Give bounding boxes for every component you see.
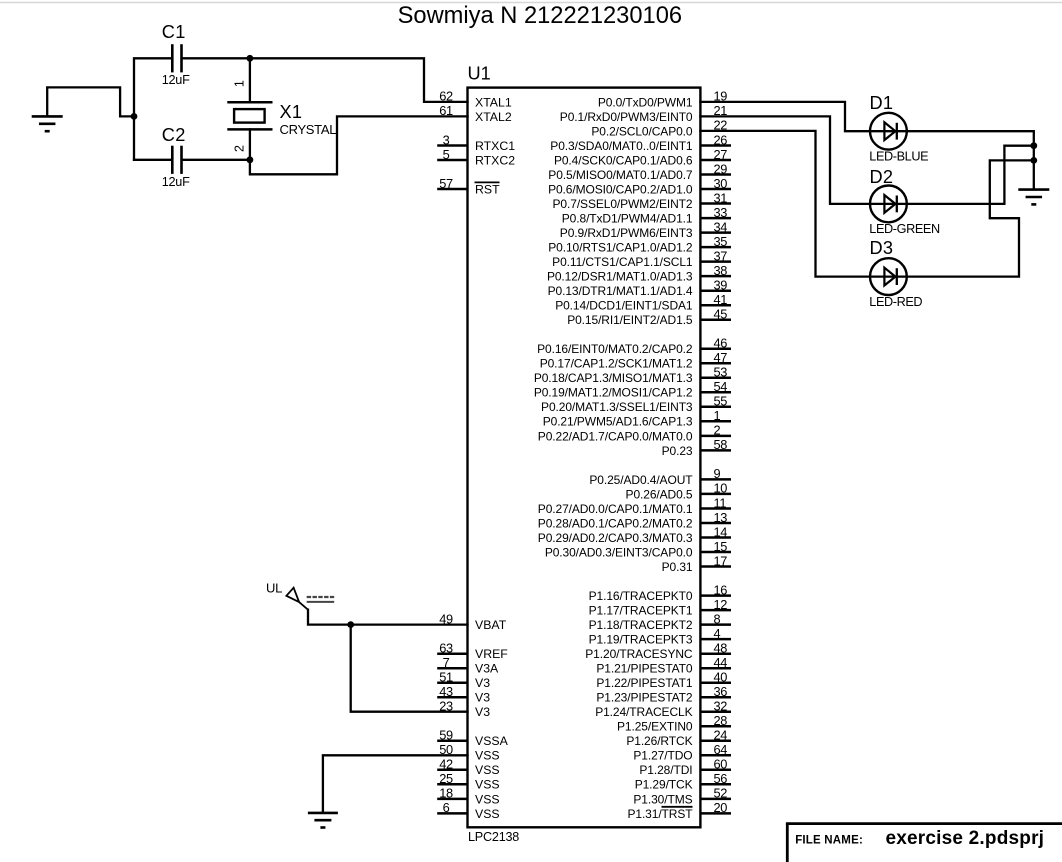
svg-text:P1.18/TRACEPKT2: P1.18/TRACEPKT2: [589, 618, 693, 632]
svg-text:P0.17/CAP1.2/SCK1/MAT1.2: P0.17/CAP1.2/SCK1/MAT1.2: [540, 357, 693, 371]
svg-text:P1.23/PIPESTAT2: P1.23/PIPESTAT2: [596, 691, 693, 705]
svg-text:P0.22/AD1.7/CAP0.0/MAT0.0: P0.22/AD1.7/CAP0.0/MAT0.0: [538, 429, 693, 443]
svg-text:D2: D2: [870, 167, 894, 187]
svg-text:57: 57: [439, 176, 453, 191]
svg-text:42: 42: [439, 757, 453, 772]
svg-text:UL: UL: [266, 580, 282, 595]
svg-text:P0.3/SDA0/MAT0..0/EINT1: P0.3/SDA0/MAT0..0/EINT1: [550, 139, 693, 153]
svg-text:35: 35: [714, 234, 728, 249]
svg-text:P0.21/PWM5/AD1.6/CAP1.3: P0.21/PWM5/AD1.6/CAP1.3: [543, 415, 693, 429]
svg-text:CRYSTAL: CRYSTAL: [280, 122, 337, 137]
svg-text:D3: D3: [870, 238, 894, 258]
svg-text:VBAT: VBAT: [475, 618, 507, 632]
svg-text:P0.28/AD0.1/CAP0.2/MAT0.2: P0.28/AD0.1/CAP0.2/MAT0.2: [538, 516, 693, 530]
svg-text:XTAL1: XTAL1: [475, 95, 512, 109]
svg-text:59: 59: [439, 728, 453, 743]
svg-text:56: 56: [714, 771, 728, 786]
svg-text:P1.16/TRACEPKT0: P1.16/TRACEPKT0: [589, 589, 693, 603]
svg-text:3: 3: [443, 132, 450, 147]
svg-text:VREF: VREF: [475, 647, 508, 661]
svg-text:39: 39: [714, 278, 728, 293]
svg-text:P1.31/TRST: P1.31/TRST: [627, 807, 693, 821]
svg-text:33: 33: [714, 205, 728, 220]
svg-text:VSSA: VSSA: [475, 734, 509, 748]
svg-text:P0.2/SCL0/CAP0.0: P0.2/SCL0/CAP0.0: [591, 124, 693, 138]
svg-text:6: 6: [443, 800, 450, 815]
svg-text:5: 5: [443, 147, 450, 162]
svg-text:P1.19/TRACEPKT3: P1.19/TRACEPKT3: [589, 633, 693, 647]
svg-text:24: 24: [714, 728, 728, 743]
svg-text:44: 44: [714, 655, 728, 670]
svg-text:P1.25/EXTIN0: P1.25/EXTIN0: [617, 720, 693, 734]
svg-text:2: 2: [714, 423, 721, 438]
svg-text:P0.15/RI1/EINT2/AD1.5: P0.15/RI1/EINT2/AD1.5: [567, 313, 693, 327]
svg-text:P0.18/CAP1.3/MISO1/MAT1.3: P0.18/CAP1.3/MISO1/MAT1.3: [534, 371, 693, 385]
svg-text:V3: V3: [475, 691, 490, 705]
svg-text:P0.9/RxD1/PWM6/EINT3: P0.9/RxD1/PWM6/EINT3: [560, 226, 693, 240]
svg-text:P1.24/TRACECLK: P1.24/TRACECLK: [595, 705, 692, 719]
svg-text:C1: C1: [162, 22, 186, 42]
svg-text:FILE NAME:: FILE NAME:: [795, 834, 863, 846]
svg-text:P1.26/RTCK: P1.26/RTCK: [626, 734, 692, 748]
svg-text:P0.13/DTR1/MAT1.1/AD1.4: P0.13/DTR1/MAT1.1/AD1.4: [548, 284, 693, 298]
svg-text:P0.30/AD0.3/EINT3/CAP0.0: P0.30/AD0.3/EINT3/CAP0.0: [545, 545, 693, 559]
svg-text:VSS: VSS: [475, 749, 500, 763]
svg-text:Sowmiya N 212221230106: Sowmiya N 212221230106: [398, 3, 682, 29]
svg-text:18: 18: [439, 786, 453, 801]
svg-text:12uF: 12uF: [162, 73, 190, 87]
svg-text:P0.27/AD0.0/CAP0.1/MAT0.1: P0.27/AD0.0/CAP0.1/MAT0.1: [538, 502, 693, 516]
svg-text:43: 43: [439, 684, 453, 699]
svg-text:P1.17/TRACEPKT1: P1.17/TRACEPKT1: [589, 604, 693, 618]
svg-text:P1.30/TMS: P1.30/TMS: [633, 792, 692, 806]
svg-text:P0.16/EINT0/MAT0.2/CAP0.2: P0.16/EINT0/MAT0.2/CAP0.2: [537, 342, 693, 356]
svg-text:63: 63: [439, 641, 453, 656]
svg-text:34: 34: [714, 219, 728, 234]
svg-text:52: 52: [714, 786, 728, 801]
svg-text:P0.7/SSEL0/PWM2/EINT2: P0.7/SSEL0/PWM2/EINT2: [553, 197, 693, 211]
svg-text:60: 60: [714, 757, 728, 772]
svg-text:exercise 2.pdsprj: exercise 2.pdsprj: [886, 828, 1045, 849]
svg-text:P0.4/SCK0/CAP0.1/AD0.6: P0.4/SCK0/CAP0.1/AD0.6: [554, 153, 693, 167]
svg-text:LED-GREEN: LED-GREEN: [869, 222, 940, 236]
svg-text:P0.23: P0.23: [662, 444, 693, 458]
svg-text:31: 31: [714, 190, 728, 205]
svg-text:P0.1/RxD0/PWM3/EINT0: P0.1/RxD0/PWM3/EINT0: [560, 110, 693, 124]
svg-text:9: 9: [714, 466, 721, 481]
svg-text:P0.5/MISO0/MAT0.1/AD0.7: P0.5/MISO0/MAT0.1/AD0.7: [548, 168, 693, 182]
svg-text:53: 53: [714, 365, 728, 380]
svg-text:32: 32: [714, 699, 728, 714]
svg-text:XTAL2: XTAL2: [475, 110, 512, 124]
svg-text:RTXC1: RTXC1: [475, 139, 515, 153]
svg-text:41: 41: [714, 292, 728, 307]
svg-text:29: 29: [714, 161, 728, 176]
svg-text:38: 38: [714, 263, 728, 278]
svg-text:C2: C2: [162, 125, 186, 145]
svg-text:2: 2: [232, 145, 246, 152]
svg-text:P0.20/MAT1.3/SSEL1/EINT3: P0.20/MAT1.3/SSEL1/EINT3: [541, 400, 693, 414]
svg-text:V3: V3: [475, 676, 490, 690]
svg-text:48: 48: [714, 641, 728, 656]
svg-text:1: 1: [232, 80, 246, 87]
svg-text:4: 4: [714, 626, 721, 641]
svg-text:P0.19/MAT1.2/MOSI1/CAP1.2: P0.19/MAT1.2/MOSI1/CAP1.2: [534, 386, 693, 400]
svg-text:VSS: VSS: [475, 763, 500, 777]
svg-text:25: 25: [439, 771, 453, 786]
svg-text:P0.10/RTS1/CAP1.0/AD1.2: P0.10/RTS1/CAP1.0/AD1.2: [548, 241, 693, 255]
svg-text:54: 54: [714, 379, 728, 394]
svg-text:11: 11: [714, 495, 727, 510]
svg-text:P0.6/MOSI0/CAP0.2/AD1.0: P0.6/MOSI0/CAP0.2/AD1.0: [548, 182, 693, 196]
svg-text:VSS: VSS: [475, 807, 500, 821]
svg-text:13: 13: [714, 510, 728, 525]
svg-text:RTXC2: RTXC2: [475, 153, 515, 167]
svg-text:58: 58: [714, 437, 728, 452]
svg-text:VSS: VSS: [475, 792, 500, 806]
svg-text:17: 17: [714, 553, 728, 568]
svg-text:55: 55: [714, 394, 728, 409]
svg-text:P0.14/DCD1/EINT1/SDA1: P0.14/DCD1/EINT1/SDA1: [555, 299, 693, 313]
svg-text:46: 46: [714, 336, 728, 351]
svg-text:30: 30: [714, 176, 728, 191]
svg-text:37: 37: [714, 248, 728, 263]
svg-text:RST: RST: [475, 182, 500, 196]
svg-text:X1: X1: [280, 102, 303, 122]
svg-text:P1.21/PIPESTAT0: P1.21/PIPESTAT0: [596, 662, 693, 676]
svg-text:28: 28: [714, 713, 728, 728]
svg-text:P1.29/TCK: P1.29/TCK: [635, 778, 693, 792]
svg-text:36: 36: [714, 684, 728, 699]
svg-text:D1: D1: [870, 93, 894, 113]
svg-text:VSS: VSS: [475, 778, 500, 792]
svg-text:P0.26/AD0.5: P0.26/AD0.5: [626, 487, 693, 501]
svg-text:V3: V3: [475, 705, 490, 719]
svg-text:8: 8: [714, 611, 721, 626]
svg-text:20: 20: [714, 800, 728, 815]
svg-text:P1.22/PIPESTAT1: P1.22/PIPESTAT1: [596, 676, 693, 690]
svg-text:P1.20/TRACESYNC: P1.20/TRACESYNC: [585, 647, 693, 661]
svg-text:10: 10: [714, 481, 728, 496]
svg-text:12: 12: [714, 597, 728, 612]
svg-text:45: 45: [714, 307, 728, 322]
svg-text:P0.25/AD0.4/AOUT: P0.25/AD0.4/AOUT: [589, 473, 693, 487]
svg-text:64: 64: [714, 742, 728, 757]
svg-text:51: 51: [439, 670, 453, 685]
svg-text:U1: U1: [468, 64, 491, 84]
svg-text:LED-BLUE: LED-BLUE: [869, 149, 928, 163]
svg-text:P1.28/TDI: P1.28/TDI: [639, 763, 692, 777]
svg-text:7: 7: [443, 655, 450, 670]
svg-text:V3A: V3A: [475, 662, 499, 676]
svg-text:40: 40: [714, 670, 728, 685]
svg-text:1: 1: [714, 408, 721, 423]
svg-text:27: 27: [714, 147, 728, 162]
svg-text:15: 15: [714, 539, 728, 554]
svg-text:P0.31: P0.31: [662, 560, 693, 574]
svg-text:LPC2138: LPC2138: [468, 830, 519, 844]
svg-text:LED-RED: LED-RED: [869, 295, 922, 309]
svg-text:14: 14: [714, 524, 728, 539]
svg-text:P0.12/DSR1/MAT1.0/AD1.3: P0.12/DSR1/MAT1.0/AD1.3: [547, 270, 693, 284]
svg-text:12uF: 12uF: [162, 175, 190, 189]
svg-text:16: 16: [714, 582, 728, 597]
svg-text:P0.8/TxD1/PWM4/AD1.1: P0.8/TxD1/PWM4/AD1.1: [562, 212, 693, 226]
svg-text:P0.0/TxD0/PWM1: P0.0/TxD0/PWM1: [598, 95, 693, 109]
svg-text:26: 26: [714, 132, 728, 147]
svg-text:47: 47: [714, 350, 728, 365]
svg-text:P0.11/CTS1/CAP1.1/SCL1: P0.11/CTS1/CAP1.1/SCL1: [552, 255, 693, 269]
svg-text:P1.27/TDO: P1.27/TDO: [633, 749, 692, 763]
svg-text:P0.29/AD0.2/CAP0.3/MAT0.3: P0.29/AD0.2/CAP0.3/MAT0.3: [538, 531, 693, 545]
